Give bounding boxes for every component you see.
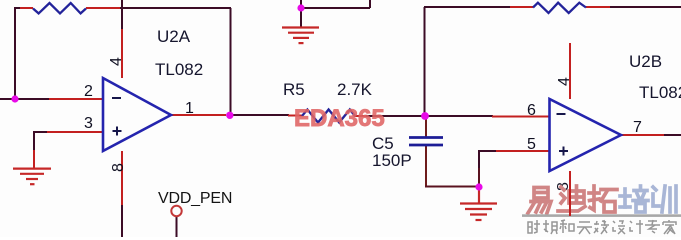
op-amp U2B plus <box>559 147 568 156</box>
pin lead: U2A pin 3 red <box>47 131 103 133</box>
junction node A (inverting input U2A) <box>11 95 18 102</box>
ground GND3 bottom-right <box>460 187 497 220</box>
wire: left feedback vertical <box>14 8 16 99</box>
port VDD_PEN circle <box>171 206 181 216</box>
junction node: pin5 ground <box>475 183 482 190</box>
subtitle char 设 <box>613 221 625 234</box>
pin lead: U2B pin 7 output red <box>621 134 665 136</box>
wire: C5 to ground node horizontal <box>425 186 479 188</box>
pin lead: R_fb right lead red <box>86 7 120 9</box>
pin lead: U2B pin 6 red <box>492 116 549 118</box>
wire: top-center ground stub <box>300 8 302 27</box>
svg-text:3: 3 <box>84 115 93 132</box>
subtitle char 和 <box>560 220 574 233</box>
op-amp U2B minus <box>557 113 566 115</box>
svg-text:R5: R5 <box>283 80 305 99</box>
svg-text:TL082: TL082 <box>639 83 681 102</box>
wire: C5 bottom lead <box>425 145 427 187</box>
svg-text:2: 2 <box>84 83 93 100</box>
svg-text:6: 6 <box>527 102 536 119</box>
wire: top-center ground net horizontal <box>301 0 370 8</box>
wire: right feedback vertical <box>424 7 426 116</box>
op-amp U2A minus <box>112 97 121 99</box>
wire: U2A pin 4 supply upper dark <box>121 0 123 30</box>
logo char 训 <box>653 186 676 212</box>
svg-text:5: 5 <box>527 136 536 153</box>
op-amp U2A plus <box>113 127 122 136</box>
wire: VDD_PEN port stem <box>176 217 178 237</box>
resistor R5 <box>302 110 355 123</box>
wire: pin5 ground vertical <box>478 168 480 187</box>
pin lead: left ground stem red <box>33 150 35 168</box>
wire: R5 to node B <box>365 115 425 117</box>
pin lead: U2A pin 4 red <box>121 29 123 78</box>
pin lead: U2A pin 8 red <box>121 151 123 205</box>
pin lead: R_fb left lead red <box>20 7 33 9</box>
wire: top-right feedback horizontal left part <box>424 6 511 8</box>
junction node B (R5 / C5 / pin6) <box>421 112 429 120</box>
svg-text:TL082: TL082 <box>155 60 203 79</box>
logo underline <box>522 214 681 217</box>
svg-text:4: 4 <box>108 57 125 66</box>
wire: input net to left edge <box>0 98 50 100</box>
svg-text:8: 8 <box>110 163 127 172</box>
wire: top-right feedback horizontal right part <box>608 6 681 8</box>
wire: pin3 ground corner <box>34 132 48 152</box>
pin lead: U2A pin 1 output red <box>171 114 226 116</box>
subtitle char 天 <box>577 222 592 234</box>
pin lead: U2B pin 4 red <box>569 43 571 99</box>
subtitle char 家 <box>663 220 676 234</box>
svg-text:150P: 150P <box>372 151 412 170</box>
wire: node B to pin 6 <box>425 115 493 117</box>
subtitle char 射 <box>528 220 540 233</box>
svg-text:EDA365: EDA365 <box>294 105 385 132</box>
svg-text:2.7K: 2.7K <box>337 80 373 99</box>
pin lead: U2B pin 5 red <box>496 150 549 152</box>
logo char 拓 <box>589 186 617 212</box>
subtitle char 计 <box>630 220 643 234</box>
wire: C5 top lead <box>425 116 427 137</box>
subtitle char 线 <box>594 220 609 234</box>
svg-text:U2B: U2B <box>629 52 662 71</box>
wire: output node to R5 <box>231 114 289 116</box>
resistor R_fb2 (U2B feedback) <box>533 3 586 13</box>
resistor R_fb (U2A feedback) <box>33 3 86 13</box>
junction node: top ground <box>297 4 304 11</box>
logo char 培 <box>620 186 648 212</box>
wire: pin7 net dark to edge <box>664 134 681 136</box>
wire: U2A pin 8 lower dark <box>121 204 123 237</box>
op-amp U2B triangle <box>550 99 622 171</box>
svg-text:U2A: U2A <box>157 27 191 46</box>
pin lead: R5 left lead red <box>288 115 302 117</box>
svg-text:1: 1 <box>185 100 194 117</box>
pin lead: R_fb2 right lead red <box>586 6 610 8</box>
logo 易迪拓培训 <box>528 186 676 213</box>
wire: pin 5 corner segment <box>479 151 497 170</box>
subtitle char 频 <box>543 220 557 234</box>
pin lead: R5 right lead red <box>354 115 366 117</box>
logo char 易 <box>528 188 551 214</box>
logo char 迪 <box>558 186 585 211</box>
junction node: U2A output <box>226 112 233 119</box>
pin lead: R_fb2 left lead red <box>510 6 533 8</box>
ground GND1 left <box>13 169 51 185</box>
logo subtitle 射频和天线设计专家 <box>528 220 676 234</box>
svg-text:4: 4 <box>556 77 573 86</box>
capacitor C5 plates <box>409 138 443 146</box>
op-amp U2A triangle <box>103 78 171 151</box>
ground GND2 top-center <box>282 28 319 44</box>
svg-text:7: 7 <box>633 119 642 136</box>
wire: top-left feedback horizontal <box>14 7 231 9</box>
svg-text:VDD_PEN: VDD_PEN <box>158 190 232 207</box>
pin lead: U2A pin 2 red <box>49 98 103 100</box>
wire: feedback vertical to output node <box>230 8 232 115</box>
pin lead: U2B pin 8 red over logo <box>569 171 571 216</box>
subtitle char 专 <box>645 220 660 233</box>
